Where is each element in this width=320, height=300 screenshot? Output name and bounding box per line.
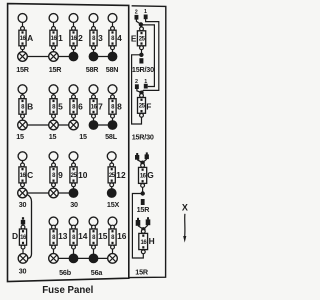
wire terminal2-F to node bbox=[137, 89, 142, 93]
svg-text:10: 10 bbox=[78, 170, 88, 180]
wire: row1 bus 15R (A-1-2) bbox=[23, 56, 74, 58]
svg-text:8: 8 bbox=[117, 101, 122, 111]
node: fuse E output junction bbox=[139, 53, 143, 57]
fuse 16 (8A) bbox=[108, 217, 127, 263]
svg-text:12: 12 bbox=[116, 170, 126, 180]
svg-text:15R: 15R bbox=[49, 65, 63, 74]
svg-text:30: 30 bbox=[70, 200, 78, 209]
fuse 5 (8A) bbox=[49, 85, 63, 130]
svg-text:15: 15 bbox=[98, 231, 108, 241]
svg-text:2: 2 bbox=[78, 33, 83, 43]
fuse 10 (25A) bbox=[69, 152, 88, 198]
svg-text:Fuse Panel: Fuse Panel bbox=[42, 285, 93, 296]
svg-text:30: 30 bbox=[19, 200, 27, 209]
svg-text:15R: 15R bbox=[137, 205, 151, 214]
terminal (right) of fuse H bbox=[146, 217, 151, 225]
wire: E output down-left to F output (15R/30 rail) bbox=[132, 55, 142, 124]
fuse 3 (8A) bbox=[89, 14, 104, 62]
terminal: E output spade bbox=[139, 58, 143, 63]
wire: row2 bus 15 (B-5-6) bbox=[23, 124, 74, 126]
fuse 13 (8A) bbox=[49, 217, 68, 263]
terminal: G output spade bbox=[141, 199, 145, 205]
fuse D (16A) bbox=[12, 217, 28, 263]
svg-text:1: 1 bbox=[144, 9, 147, 15]
wire: E terminal1 loop to F input node bbox=[142, 19, 159, 93]
svg-text:A: A bbox=[27, 33, 33, 43]
svg-text:15R: 15R bbox=[135, 268, 149, 277]
wire: X arrow down bbox=[184, 214, 186, 237]
node: fuse G input junction bbox=[140, 161, 144, 165]
svg-text:30: 30 bbox=[19, 267, 27, 276]
svg-text:B: B bbox=[27, 101, 33, 111]
fuse 7 (16A) bbox=[89, 85, 104, 130]
wire: E input node loop to F terminal1 bbox=[143, 25, 155, 87]
terminal 2 of fuse F bbox=[135, 79, 139, 89]
fuse A (16A) bbox=[18, 14, 33, 62]
svg-text:15X: 15X bbox=[107, 200, 120, 209]
svg-text:4: 4 bbox=[117, 33, 122, 43]
svg-text:56a: 56a bbox=[91, 268, 104, 277]
svg-text:2: 2 bbox=[135, 79, 138, 85]
relay panel outline (right) bbox=[129, 6, 166, 278]
fuse F (25A) bbox=[138, 93, 152, 118]
svg-text:15R: 15R bbox=[16, 65, 30, 74]
svg-text:2: 2 bbox=[135, 9, 138, 15]
svg-text:16: 16 bbox=[117, 231, 127, 241]
wire: row1 bus 58 (3-4) bbox=[94, 56, 113, 58]
svg-text:58L: 58L bbox=[105, 132, 118, 141]
svg-text:15: 15 bbox=[79, 132, 87, 141]
svg-text:D: D bbox=[12, 231, 18, 241]
terminal (right) of fuse G bbox=[145, 152, 149, 159]
fuse 4 (8A) bbox=[108, 14, 123, 62]
terminal 1 of fuse F bbox=[144, 79, 148, 89]
fuse C (16A) bbox=[18, 152, 33, 198]
svg-text:14: 14 bbox=[78, 231, 88, 241]
svg-text:58N: 58N bbox=[106, 65, 119, 74]
main fuse panel outline bbox=[8, 4, 129, 282]
wires G terminals to node bbox=[137, 159, 147, 163]
svg-text:7: 7 bbox=[98, 101, 103, 111]
fuse 12 (25A) bbox=[107, 152, 126, 198]
terminal (left) of fuse G bbox=[135, 153, 139, 160]
svg-text:6: 6 bbox=[78, 101, 83, 111]
svg-text:C: C bbox=[27, 170, 33, 180]
fuse 1 (16A) bbox=[49, 14, 63, 62]
svg-text:56b: 56b bbox=[59, 268, 72, 277]
svg-text:15: 15 bbox=[49, 132, 57, 141]
wire terminal2-E to node bbox=[136, 19, 140, 24]
node: fuse H input junction bbox=[141, 227, 145, 231]
node: fuse F input junction bbox=[139, 91, 143, 95]
terminal (left) of fuse H bbox=[136, 218, 141, 226]
fuse 6 (8A) bbox=[69, 85, 83, 130]
wire: row4 bus 56 (13-14-15-16) bbox=[54, 257, 113, 259]
svg-text:X: X bbox=[182, 203, 188, 213]
svg-text:1: 1 bbox=[58, 33, 63, 43]
svg-text:H: H bbox=[149, 236, 155, 246]
fuse 2 (16A) bbox=[69, 14, 84, 62]
node: fuse G output junction bbox=[141, 191, 145, 195]
svg-text:E: E bbox=[131, 34, 137, 44]
svg-text:F: F bbox=[146, 101, 151, 111]
fuse 15 (8A) bbox=[89, 217, 108, 263]
svg-text:G: G bbox=[147, 170, 154, 180]
svg-text:13: 13 bbox=[58, 231, 68, 241]
fuse G (16A) bbox=[139, 163, 154, 194]
svg-text:5: 5 bbox=[58, 101, 63, 111]
svg-text:15R/30: 15R/30 bbox=[132, 133, 154, 142]
svg-text:15R/30: 15R/30 bbox=[132, 65, 154, 74]
node: fuse E input junction bbox=[139, 22, 143, 26]
fuse E (25A) bbox=[131, 24, 146, 54]
fuse H (16A) bbox=[139, 229, 155, 253]
terminal 1 of fuse E bbox=[144, 9, 148, 19]
wire: G output down-left to H output (15R rail) bbox=[132, 194, 143, 259]
terminal 2 of fuse E bbox=[135, 9, 139, 19]
fuse 14 (8A) bbox=[69, 217, 88, 263]
wires H terminals to node bbox=[138, 225, 148, 229]
wire: row2 bus 58L (7-8) bbox=[94, 124, 113, 126]
wire: branch 30 bus down to fuse D bbox=[23, 194, 32, 258]
svg-text:15: 15 bbox=[16, 132, 24, 141]
fuse 9 (8A) bbox=[49, 152, 63, 198]
svg-text:9: 9 bbox=[58, 170, 63, 180]
fuse B (8A) bbox=[18, 85, 33, 130]
wire: row3 bus 30 (C-9-10) bbox=[23, 192, 74, 194]
fuse 8 (8A) bbox=[108, 85, 123, 130]
svg-text:3: 3 bbox=[98, 33, 103, 43]
svg-text:58R: 58R bbox=[86, 65, 100, 74]
